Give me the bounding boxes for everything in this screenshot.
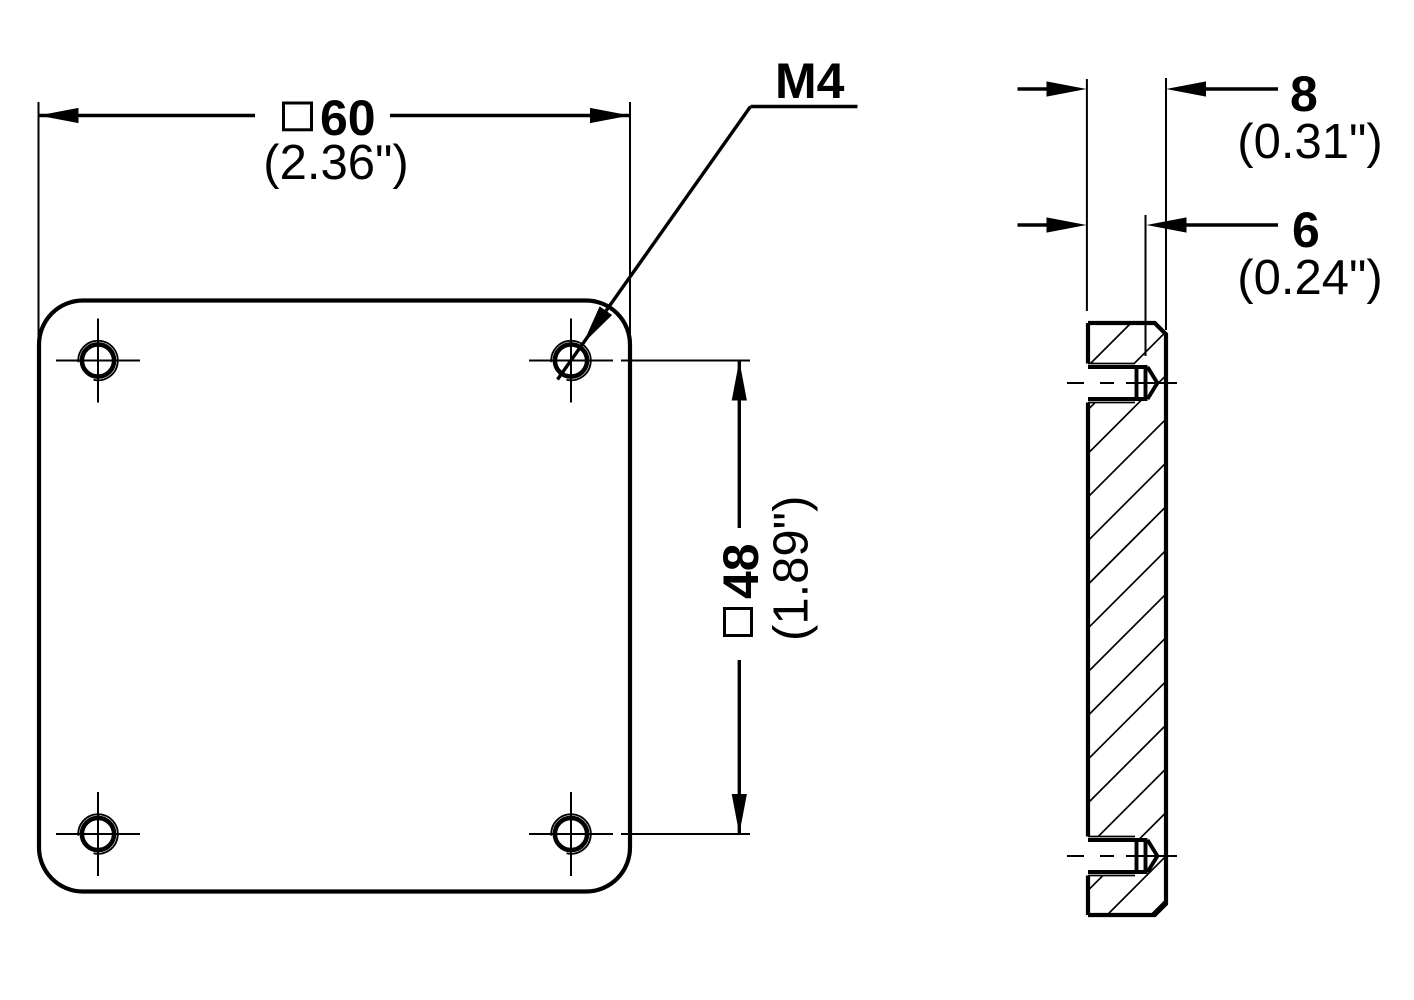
lower M4 tapped hole (section) [1088, 837, 1157, 876]
M4 threaded hole bottom-right (front view) [529, 792, 613, 876]
svg-text:(1.89"): (1.89") [765, 496, 819, 641]
extension line left face (8 dim) [1086, 79, 1088, 311]
dimension 6 arrows and lines [1018, 217, 1279, 232]
white interior of upper tapped hole [1088, 364, 1157, 403]
square symbol of 48 dim [725, 609, 752, 636]
svg-text:(0.31"): (0.31") [1237, 115, 1382, 169]
M4 leader line [558, 107, 858, 380]
svg-text:M4: M4 [775, 53, 845, 109]
extension line top of 48 dim [621, 360, 750, 362]
white interior of lower tapped hole [1088, 837, 1157, 876]
dimension 8 arrows and lines [1018, 81, 1279, 96]
svg-text:48: 48 [713, 543, 769, 599]
svg-text:(2.36"): (2.36") [263, 136, 408, 190]
M4 threaded hole top-left (front view) [56, 319, 140, 403]
dimension line 60 with arrowheads [39, 108, 631, 123]
extension line right of 60 dim [629, 102, 631, 341]
side view plate outline (8mm section, chamfered right corners) [1088, 323, 1166, 915]
dimension line 48 with arrowheads [732, 361, 747, 835]
side view section hatching (45deg) [1082, 238, 1172, 984]
svg-text:6: 6 [1292, 202, 1320, 258]
svg-text:(0.24"): (0.24") [1237, 251, 1382, 305]
front view plate outline (60x60 plate) [39, 301, 630, 892]
extension line left of 60 dim [38, 102, 40, 338]
extension line right face (8 dim) [1165, 78, 1167, 330]
extension line bottom of 48 dim [621, 833, 750, 835]
extension line thread depth (6 dim) [1145, 215, 1147, 356]
svg-text:8: 8 [1290, 66, 1318, 122]
M4 threaded hole top-right (front view) [529, 319, 613, 403]
M4 leader arrowhead [577, 306, 612, 348]
M4 threaded hole bottom-left (front view) [56, 792, 140, 876]
upper M4 tapped hole (section) centerline [1067, 382, 1177, 384]
upper M4 tapped hole (section) [1088, 364, 1157, 403]
lower M4 tapped hole (section) centerline [1067, 855, 1177, 857]
square symbol of 60 dim [284, 103, 312, 130]
